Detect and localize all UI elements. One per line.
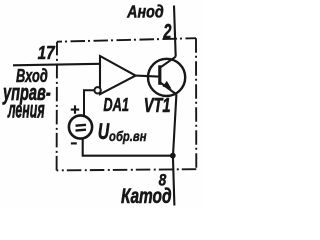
wire: emitter down to junction [173, 94, 176, 155]
svg-text:U: U [98, 121, 110, 145]
svg-text:Катод: Катод [121, 184, 172, 208]
value label U obr.vn [98, 121, 110, 145]
dash-dot enclosure border bottom [57, 169, 197, 170]
svg-text:обр.вн: обр.вн [109, 128, 147, 145]
pin 2 label [163, 20, 172, 43]
transistor VT1 emitter lead [160, 83, 176, 95]
wire: cathode line [173, 156, 175, 206]
node label: Катод (cathode) [121, 184, 172, 208]
svg-text:VT1: VT1 [144, 94, 171, 117]
node label: Вход управления (control input) [16, 67, 48, 87]
svg-text:ления: ления [7, 96, 44, 122]
wire: source bottom to cathode rail [83, 138, 173, 155]
node label: Анод (anode) [126, 3, 164, 22]
plus polarity mark [71, 105, 79, 113]
wire: inverting input to reference source [84, 90, 94, 116]
svg-text:Анод: Анод [126, 3, 164, 22]
svg-text:DA1: DA1 [103, 96, 129, 116]
transistor VT1 collector lead [160, 57, 175, 68]
op-amp U=DA1 triangle [100, 56, 136, 94]
minus polarity mark [71, 142, 77, 144]
svg-text:2: 2 [163, 20, 172, 43]
junction node dot [170, 153, 176, 159]
pin 8 label [159, 171, 167, 190]
transistor VT1 reference designator [144, 94, 171, 117]
svg-text:17: 17 [38, 42, 56, 64]
pin 17 label [38, 42, 56, 64]
voltage source equals bars [76, 125, 87, 131]
op-amp DA1 reference designator [103, 96, 129, 116]
dash-dot enclosure border top [57, 38, 196, 42]
wire: op-amp output to transistor base [136, 76, 159, 77]
transistor VT1 emitter arrow [163, 81, 172, 89]
dash-dot enclosure border right [195, 38, 197, 169]
wire: control input to op-amp noninverting input [13, 64, 100, 66]
wire: anode line to collector [174, 6, 176, 57]
voltage source G1 (Uобр.вн) circle [69, 115, 92, 138]
dash-dot enclosure border left [56, 42, 58, 171]
transistor VT1 body circle [148, 59, 185, 96]
transistor VT1 base bar [158, 65, 161, 85]
op-amp DA1 inverting input bubble [94, 87, 100, 93]
